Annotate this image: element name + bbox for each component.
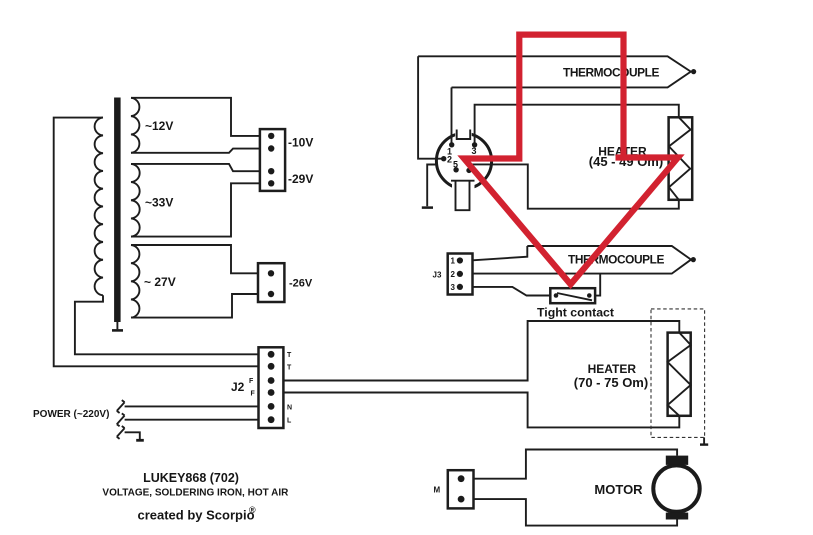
svg-text:2: 2 <box>451 270 456 279</box>
plug break symbol on N wire <box>117 400 125 413</box>
wire: M pin2 to motor bottom <box>474 499 678 525</box>
DIN 5-pin connector U1 (body shell) <box>436 129 491 192</box>
wire: DIN right side to heater1 bottom <box>472 164 679 208</box>
transformer T1 primary winding <box>95 118 103 296</box>
motor M1 body <box>653 465 699 511</box>
svg-text:-29V: -29V <box>288 172 313 186</box>
svg-text:LUKEY868 (702): LUKEY868 (702) <box>143 471 239 485</box>
svg-text:Tight contact: Tight contact <box>537 305 614 319</box>
svg-text:created by Scorpio: created by Scorpio <box>137 507 254 522</box>
svg-text:~33V: ~33V <box>145 196 173 210</box>
svg-text:M: M <box>434 486 441 495</box>
svg-text:-10V: -10V <box>288 136 313 150</box>
plug break symbol on L wire <box>117 413 125 426</box>
svg-text:~ 27V: ~ 27V <box>144 275 176 289</box>
svg-text:3: 3 <box>472 146 477 156</box>
motor brush bottom <box>666 513 688 520</box>
thermocouple 2 tip dot <box>691 257 696 262</box>
wire: mains earth stub <box>125 432 140 439</box>
svg-text:HEATER: HEATER <box>588 362 637 376</box>
wire: TC1 top edge down to DIN pin 2 <box>418 56 444 158</box>
thermocouple 1 (soldering iron) outline <box>418 56 691 87</box>
svg-text:MOTOR: MOTOR <box>594 482 643 497</box>
svg-text:POWER (~220V): POWER (~220V) <box>33 409 109 420</box>
wire: primary bottom end to J2 pin 1 <box>75 295 259 354</box>
transformer secondary winding ~12V <box>131 98 139 153</box>
wire: ~33V bottom to CN1 pin 4 <box>131 183 260 236</box>
transformer secondary winding ~33V <box>131 164 140 237</box>
connector CN2 (2-pin, -26V) <box>258 263 284 302</box>
transformer core <box>114 98 121 323</box>
svg-text:F: F <box>251 391 256 398</box>
connector CN1 (4-pin, -10V/-29V) <box>260 129 285 191</box>
wire: M pin1 to motor top <box>474 450 678 479</box>
heater R1 (45-49 Om) body <box>669 117 693 200</box>
connector J3 <box>448 254 473 295</box>
wire: ~27V bottom to CN2 pin 2 <box>131 294 258 318</box>
wire: DIN shell to earth <box>427 165 437 207</box>
svg-text:T: T <box>287 352 292 359</box>
connector J2 <box>259 347 284 428</box>
svg-text:J3: J3 <box>433 271 442 280</box>
earth at heater R2 enclosure <box>703 437 705 443</box>
wire: mains L to J2 pin 6 <box>125 419 259 421</box>
heater R2 (70-75 Om) body <box>668 333 691 416</box>
DIN connector wire: pin1 up to thermocouple bottom edge <box>451 87 453 144</box>
svg-text:3: 3 <box>451 283 456 292</box>
DIN pins <box>449 142 454 147</box>
transformer secondary winding ~27V <box>131 245 139 318</box>
wire: ~12V top to CN1 pin 1 <box>131 98 260 136</box>
plug break symbol on earth wire <box>117 426 125 439</box>
wire+thermocouple 2 bottom edge: J3 pin2 <box>473 260 691 274</box>
tight contact switch body <box>550 288 595 303</box>
wire: pin3 up to heater1 top <box>475 105 679 145</box>
wire: ~27V top to CN2 pin 1 <box>131 245 258 273</box>
svg-text:VOLTAGE, SOLDERING IRON, HOT A: VOLTAGE, SOLDERING IRON, HOT AIR <box>102 487 289 498</box>
wire: J3 pin1 to thermocouple 2 top <box>473 246 528 260</box>
ground at transformer core <box>116 322 118 329</box>
motor brush top <box>666 456 688 465</box>
svg-text:5: 5 <box>453 160 458 170</box>
svg-text:T: T <box>287 365 292 372</box>
svg-text:-26V: -26V <box>289 278 313 290</box>
wire: tight contact to thermocouple 2 bottom <box>595 274 600 296</box>
tight contact pins and blade <box>554 293 559 298</box>
DIN cable tab <box>456 181 470 211</box>
red marker overshoot stub <box>616 154 625 160</box>
svg-text:1: 1 <box>451 257 456 266</box>
svg-text:F: F <box>249 378 254 385</box>
heater R1 zigzag <box>669 117 691 200</box>
svg-text:2: 2 <box>447 155 452 165</box>
wire: ~12V bottom to CN1 pin 2 <box>131 149 260 153</box>
svg-text:L: L <box>287 418 292 425</box>
svg-text:(70 - 75 Om): (70 - 75 Om) <box>574 375 648 390</box>
svg-text:THERMOCOUPLE: THERMOCOUPLE <box>568 253 665 267</box>
wire: J2 pin4 F to heater2 bottom <box>283 393 679 428</box>
DIN bottom chord <box>451 180 475 182</box>
svg-text:®: ® <box>249 505 256 515</box>
svg-text:J2: J2 <box>231 380 245 394</box>
thermocouple 2 top edge <box>527 246 691 260</box>
wire: primary top end to J2 pin 2 (left outer loop) <box>54 118 259 367</box>
wire: J2 pin3 F to heater2 top <box>283 321 679 381</box>
connector M (motor) <box>448 470 474 508</box>
heater R2 dashed enclosure <box>651 309 705 438</box>
DIN key notch <box>457 130 471 140</box>
earth bar <box>136 439 144 442</box>
svg-text:N: N <box>287 405 292 412</box>
earth bar at DIN <box>422 206 433 209</box>
heater R2 zigzag <box>668 333 691 416</box>
svg-text:THERMOCOUPLE: THERMOCOUPLE <box>563 65 660 79</box>
red marker arrow overlay <box>464 35 678 285</box>
wire: ~33V top to CN1 pin 3 <box>131 164 260 171</box>
svg-text:~12V: ~12V <box>145 119 173 133</box>
wire: J3 pin3 to tight contact <box>473 287 551 296</box>
thermocouple 1 tip dot <box>691 69 696 74</box>
wire: mains N to J2 pin 5 <box>125 405 259 407</box>
